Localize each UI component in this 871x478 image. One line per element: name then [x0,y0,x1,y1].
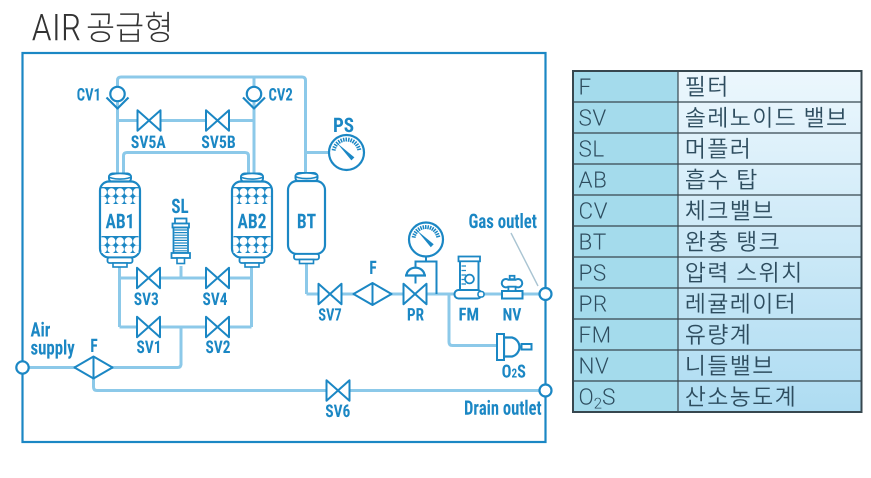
label FM [460,308,479,321]
filter F (gas line) [354,283,392,305]
needle valve NV [502,276,523,299]
pipe: upper tank manifold [124,153,249,177]
label Gas outlet [469,213,536,228]
pipe: BT bottom stem [305,258,308,294]
pipe: SL muffler drop [180,266,183,278]
pipe: SV3-SV4 manifold [120,277,252,280]
check valve CV2 [243,87,265,109]
label SV5B [202,135,235,148]
label O2S [502,365,525,378]
pipe: AB2 bottom drop to SV2 line [250,266,253,327]
label SV2 [206,340,230,353]
legend row SL [580,138,748,159]
label SL [172,199,188,214]
enclosure border [23,53,546,442]
leader line to gas outlet node [511,233,538,286]
label SV4 [203,292,227,305]
valve SV3 [137,268,160,289]
legend row BT [581,231,779,252]
valve SV6 [327,380,350,401]
legend row SV [580,107,847,128]
valve SV5A [138,110,161,131]
label SV3 [134,292,158,305]
label SV6 [326,404,350,417]
label Drain outlet [465,400,541,415]
valve SV1 [137,317,160,338]
legend row F [581,76,726,97]
valve SV4 [206,268,229,289]
label Air supply [31,322,75,359]
label SV5A [131,135,165,148]
pipe: SV1-SV2 manifold [120,326,252,329]
label CV2 [269,88,292,101]
legend row AB [579,169,757,190]
valve SV2 [206,317,229,338]
valve SV5B [206,110,229,131]
label PR [408,308,424,320]
pipe: SV5 crossover line [118,119,255,122]
pipe: O2S branch [449,294,497,346]
node: drain outlet [540,385,552,397]
label F (air) [91,339,97,352]
regulator PR [404,257,437,305]
valve SV7 [319,284,342,305]
legend row PS [581,262,800,283]
regulator PR gauge [409,223,443,257]
node: air supply inlet [16,361,28,373]
label CV1 [77,88,98,101]
label F (gas) [370,261,376,274]
title: AIR 공급형 [32,12,169,42]
label AB2 [238,214,266,229]
pipe: top manifold from CV1 riser to BT riser [118,77,306,176]
pipe: air supply riser [180,327,183,365]
buffer tank BT [288,173,325,264]
legend row FM [581,324,749,345]
filter F (air supply) [75,357,113,379]
label SV7 [319,308,341,321]
adsorber tank AB2 [231,174,273,268]
adsorber tank AB1 [99,174,141,268]
legend row CV [580,200,772,221]
pipe: AB1 bottom drop to SV1 line [118,266,121,327]
flow meter FM [455,257,485,299]
pipe: air supply line [28,364,181,368]
label PS [334,118,353,133]
legend row O2S [580,386,794,409]
label BT [298,214,316,229]
legend row PR [581,293,793,314]
legend row NV [581,355,773,376]
oxygen sensor O2S [497,334,532,360]
pipe: gas outlet line [307,293,541,296]
label SV1 [137,340,159,353]
check valve CV1 [107,87,129,109]
pipe: PS gauge tee [306,151,331,154]
muffler SL [172,219,191,264]
pipe: drain line from filter to drain outlet [94,377,541,391]
label NV [504,308,522,320]
pipe: CV2 riser [253,77,256,176]
pressure switch PS gauge [329,135,364,170]
legend table [573,71,862,412]
node: gas outlet [540,288,552,300]
label AB1 [106,214,132,229]
